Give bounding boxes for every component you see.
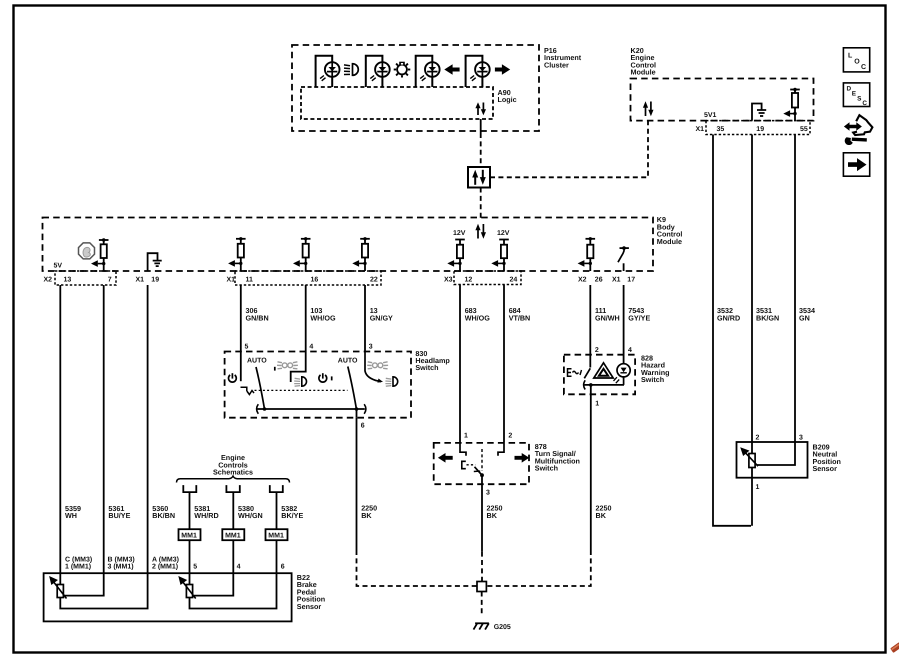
- icon service (double arrow + wrench): [844, 115, 873, 145]
- icon low beam 2: [385, 377, 397, 386]
- svg-text:WH/OG: WH/OG: [465, 313, 491, 322]
- wire serial data to K20: [490, 121, 648, 178]
- icon right turn arrow: [515, 453, 530, 463]
- label 7543 GY/YE: [628, 306, 650, 322]
- svg-text:16: 16: [311, 276, 319, 283]
- svg-text:GY/YE: GY/YE: [628, 313, 650, 322]
- svg-text:WH/RD: WH/RD: [194, 511, 218, 520]
- icon warning triangle: [594, 363, 613, 378]
- label 5361 BU/YE: [108, 504, 130, 520]
- wire 306 GN/BN: [240, 285, 242, 352]
- svg-text:22: 22: [370, 276, 378, 283]
- svg-text:5: 5: [193, 563, 197, 570]
- wire 3532 GN/RD: [713, 135, 751, 526]
- svg-text:D: D: [847, 86, 852, 93]
- pin labels X2 26: [578, 276, 603, 283]
- module A90 Logic box: [301, 87, 493, 119]
- label B22 Brake Pedal Position Sensor: [297, 573, 325, 611]
- svg-text:5V: 5V: [54, 263, 63, 270]
- contact hook pin 1: [460, 443, 466, 456]
- wire 13 GN/GY: [364, 285, 366, 352]
- svg-text:1: 1: [756, 484, 760, 491]
- wire headlamp pin 4 jog: [291, 352, 306, 383]
- resistor in K20 pin 55: [783, 88, 800, 121]
- svg-text:5V1: 5V1: [704, 112, 717, 119]
- svg-text:BK: BK: [487, 511, 498, 520]
- svg-text:GN/BN: GN/BN: [246, 313, 269, 322]
- label 878 Turn Signal Multifunction Switch: [535, 442, 580, 473]
- pin labels X1 19: [136, 276, 160, 283]
- svg-text:GN/GY: GN/GY: [370, 313, 393, 322]
- icon left turn arrow: [438, 453, 453, 463]
- label 2250 BK (right): [596, 504, 612, 520]
- LED 1: [320, 62, 339, 81]
- connector pin box X1 35/19/55: [706, 121, 810, 135]
- splice junction box: [477, 582, 486, 592]
- resistor at BCM pin 7: [91, 238, 109, 271]
- svg-text:24: 24: [510, 276, 518, 283]
- wire 3534 GN: [794, 135, 796, 443]
- connector pin box X3 12/24: [454, 271, 521, 285]
- switch symbol at BCM pin 17: [618, 246, 629, 271]
- svg-text:Cluster: Cluster: [544, 60, 569, 69]
- label 683 WH/OG: [465, 306, 491, 322]
- resistor at BCM pin 22: [352, 237, 370, 271]
- svg-text:X1: X1: [136, 276, 145, 283]
- potentiometer in B209: [742, 442, 796, 478]
- svg-text:GN/RD: GN/RD: [717, 313, 740, 322]
- inline connector MM1 (2): [222, 529, 244, 540]
- label A90 Logic: [498, 88, 517, 104]
- LED indicator 4 (right turn) bracket: [466, 56, 483, 87]
- label 5380 WH/GN: [238, 504, 263, 520]
- svg-text:G205: G205: [494, 624, 511, 631]
- pin labels X3 12 24: [444, 276, 517, 283]
- module K9 Body Control Module box: [43, 218, 654, 272]
- wire headlamp pin 6: [356, 409, 358, 418]
- common bar of headlamp switch: [257, 404, 366, 414]
- resistor at BCM pin 11: [228, 237, 246, 271]
- wire 2250 BK from headlamp pin 6: [357, 418, 478, 586]
- off-page connector 1: [183, 485, 196, 492]
- icon low beam 1: [294, 377, 306, 386]
- switch S878 Turn Signal/Multifunction Switch box: [434, 443, 529, 484]
- LED indicator 3 (left turn) bracket: [416, 56, 433, 87]
- svg-text:3: 3: [486, 489, 490, 496]
- svg-text:Module: Module: [657, 237, 682, 246]
- svg-text:O: O: [854, 58, 860, 65]
- svg-text:6: 6: [361, 423, 365, 430]
- svg-text:35: 35: [717, 126, 725, 133]
- wire hazard pin 1: [590, 385, 592, 394]
- label P16 Instrument Cluster: [544, 46, 582, 69]
- resistor at BCM pin 16: [293, 237, 311, 271]
- label 5381 WH/RD: [194, 504, 218, 520]
- svg-text:E: E: [852, 90, 857, 97]
- svg-text:A (MM3): A (MM3): [152, 555, 179, 563]
- svg-text:19: 19: [151, 276, 159, 283]
- svg-text:1: 1: [464, 433, 468, 440]
- latch symbol E~: [568, 369, 582, 377]
- label 111 GN/WH: [595, 306, 620, 322]
- svg-text:Module: Module: [631, 68, 656, 77]
- label 3534 GN: [799, 306, 815, 322]
- wire headlamp pin 3 curve: [365, 352, 381, 382]
- wire 684 VT/BN: [503, 285, 505, 443]
- label 828 Hazard Warning Switch: [641, 354, 669, 385]
- off-page connector 2: [226, 485, 239, 492]
- icon right arrow: [495, 64, 510, 75]
- pin labels 5 4 3 of headlamp switch: [245, 344, 373, 351]
- svg-text:X3: X3: [444, 276, 453, 283]
- wire 5382 below MM1: [276, 540, 278, 573]
- label 5382 BK/YE: [281, 504, 303, 520]
- label 2250 BK (left): [361, 504, 377, 520]
- svg-text:26: 26: [595, 276, 603, 283]
- svg-text:BK: BK: [361, 511, 372, 520]
- svg-text:WH: WH: [65, 511, 77, 520]
- wire splice to ground: [481, 592, 483, 617]
- svg-text:L: L: [848, 52, 853, 59]
- label Engine Controls Schematics: [213, 453, 253, 477]
- module B209 box: [737, 442, 808, 478]
- wire serial data to BCM: [480, 188, 482, 219]
- icon lamp gear: [394, 62, 411, 78]
- svg-text:2: 2: [595, 347, 599, 354]
- svg-text:6: 6: [281, 563, 285, 570]
- svg-text:55: 55: [800, 126, 808, 133]
- label 2250 BK (center): [487, 504, 503, 520]
- LED indicator 1 (low beam) bracket: [316, 56, 333, 87]
- label 13 GN/GY: [370, 306, 393, 322]
- pin labels X1 11 16 22: [227, 276, 378, 283]
- mechanical link dashes: [467, 464, 476, 466]
- module K20 Engine Control Module box: [631, 79, 814, 121]
- potentiometer 2 in B22: [180, 573, 277, 608]
- wire 111 GN/WH: [589, 285, 591, 368]
- label 830 Headlamp Switch: [415, 349, 450, 372]
- label 5359 WH: [65, 504, 81, 520]
- svg-text:7: 7: [108, 276, 112, 283]
- svg-text:X2: X2: [44, 276, 53, 283]
- wire 5361 BU/YE: [103, 285, 105, 573]
- wire 2250 BK from turn signal pin 3: [481, 484, 483, 581]
- svg-text:Switch: Switch: [535, 464, 558, 473]
- svg-text:VT/BN: VT/BN: [509, 313, 531, 322]
- off-page connector 3: [270, 485, 283, 492]
- svg-text:WH/OG: WH/OG: [310, 313, 336, 322]
- wire 5382 BK/YE: [276, 492, 278, 529]
- icon left arrow: [444, 64, 459, 75]
- svg-text:Sensor: Sensor: [297, 602, 322, 611]
- svg-text:2: 2: [508, 433, 512, 440]
- svg-text:3: 3: [369, 344, 373, 351]
- inline connector MM1 (1): [179, 529, 201, 540]
- LED 4: [470, 62, 489, 81]
- resistor at BCM pin 12: [447, 240, 465, 272]
- icon parking lamps 2: [367, 362, 388, 369]
- hazard switch lever: [584, 368, 590, 378]
- ground symbol at BCM pin 19: [148, 253, 162, 271]
- pin labels X1 17: [612, 276, 635, 283]
- contact hook pin 2: [498, 443, 504, 456]
- svg-text:BK: BK: [596, 511, 607, 520]
- wire 103 WH/OG: [305, 285, 307, 352]
- connector pin box X1 11/16/22: [235, 271, 381, 285]
- wire 5380 below MM1: [232, 540, 234, 573]
- brace to Engine Controls Schematics: [177, 476, 290, 482]
- LED 2: [370, 62, 389, 81]
- svg-text:Sensor: Sensor: [813, 464, 838, 473]
- svg-text:12: 12: [465, 276, 473, 283]
- switch S828 Hazard Warning Switch box: [564, 355, 635, 395]
- inline connector MM1 (3): [266, 529, 288, 540]
- switch lever: [474, 449, 484, 477]
- svg-text:MM1: MM1: [225, 533, 241, 540]
- svg-text:S: S: [857, 95, 862, 102]
- label K9 Body Control Module: [657, 215, 683, 246]
- center contact bracket: [462, 461, 466, 468]
- wire turn signal pin 3: [481, 475, 483, 484]
- svg-text:4: 4: [628, 347, 632, 354]
- svg-text:BU/YE: BU/YE: [108, 511, 130, 520]
- serial data arrows in A90: [475, 102, 486, 115]
- icon DESC box: [843, 83, 869, 107]
- svg-text:Logic: Logic: [498, 95, 517, 104]
- resistor at BCM pin 26: [578, 237, 596, 271]
- svg-text:BK/YE: BK/YE: [281, 511, 303, 520]
- wire 5359 WH: [59, 285, 61, 573]
- icon power symbol 2: [319, 373, 332, 382]
- svg-text:Switch: Switch: [641, 375, 664, 384]
- svg-text:AUTO: AUTO: [247, 358, 267, 365]
- serial data arrows in link box: [472, 170, 486, 185]
- serial data arrows in K20: [643, 101, 654, 116]
- svg-text:5: 5: [245, 344, 249, 351]
- svg-text:AUTO: AUTO: [338, 358, 358, 365]
- label K20 Engine Control Module: [631, 46, 657, 77]
- svg-text:4: 4: [237, 563, 241, 570]
- pin labels C/B/A MM3 MM1 row: [65, 555, 285, 570]
- svg-text:3 (MM1): 3 (MM1): [108, 562, 134, 570]
- svg-text:2: 2: [756, 435, 760, 442]
- svg-text:11: 11: [246, 276, 254, 283]
- switch S830 Headlamp Switch box: [225, 352, 411, 418]
- svg-text:C: C: [861, 64, 866, 71]
- svg-text:GN: GN: [799, 313, 810, 322]
- serial data link box: [468, 167, 490, 188]
- LED 3: [420, 62, 439, 81]
- svg-text:B (MM3): B (MM3): [108, 555, 135, 563]
- svg-text:MM1: MM1: [268, 533, 284, 540]
- off detent symbol: [241, 387, 255, 394]
- svg-text:13: 13: [64, 276, 72, 283]
- resistor at BCM pin 24: [491, 240, 509, 272]
- icon power symbol 1: [228, 373, 236, 382]
- ground symbol in K20 pin 19: [752, 104, 766, 121]
- icon ambient light sensor octagon: [79, 243, 95, 259]
- label 103 WH/OG: [310, 306, 336, 322]
- svg-text:Switch: Switch: [415, 363, 438, 372]
- ground G205: [474, 623, 489, 629]
- wire 5360 BK/BN: [147, 285, 149, 573]
- pin labels X1 35 19 55: [696, 126, 808, 133]
- hazard LED: [614, 364, 631, 385]
- switch lever 2: [348, 367, 357, 409]
- red pencil mark: [890, 642, 899, 653]
- wire 5381 WH/RD: [189, 492, 191, 529]
- svg-text:4: 4: [309, 344, 313, 351]
- svg-text:X1: X1: [696, 126, 705, 133]
- label 3531 BK/GN: [756, 306, 779, 322]
- wire 2250 BK from hazard pin 1: [486, 394, 590, 586]
- pin labels 2 4 of hazard switch: [595, 347, 632, 354]
- svg-text:1: 1: [595, 400, 599, 407]
- wire serial data from A90 down: [480, 119, 482, 133]
- svg-text:C (MM3): C (MM3): [65, 555, 92, 563]
- connector pin box X2 13/7: [55, 271, 116, 285]
- icon parking lamps 1: [274, 367, 276, 371]
- svg-text:2 (MM1): 2 (MM1): [152, 562, 178, 570]
- label 306 GN/BN: [246, 306, 269, 322]
- svg-text:WH/GN: WH/GN: [238, 511, 263, 520]
- hazard common bar: [584, 380, 624, 389]
- serial data arrows in BCM: [475, 224, 486, 239]
- svg-text:17: 17: [627, 276, 635, 283]
- svg-text:12V: 12V: [453, 230, 466, 237]
- pin labels 1 2 of turn signal switch: [464, 433, 512, 440]
- svg-text:GN/WH: GN/WH: [595, 313, 620, 322]
- label 3532 GN/RD: [717, 306, 740, 322]
- potentiometer 1 in B22: [50, 573, 147, 608]
- mechanical link dotted: [255, 389, 348, 391]
- svg-text:BK/GN: BK/GN: [756, 313, 779, 322]
- svg-text:C: C: [862, 100, 867, 107]
- svg-text:12V: 12V: [497, 230, 510, 237]
- wire headlamp pin 5 stub: [240, 352, 242, 382]
- svg-text:19: 19: [756, 126, 764, 133]
- svg-text:MM1: MM1: [181, 533, 197, 540]
- label 684 VT/BN: [509, 306, 531, 322]
- LED indicator 2 (lights-on) bracket: [366, 56, 383, 87]
- label 5360 BK/BN: [152, 504, 175, 520]
- wire 5380 WH/GN: [232, 492, 234, 529]
- sensor B22 Brake Pedal Position Sensor box: [44, 573, 292, 621]
- wire 7543 GY/YE: [623, 285, 625, 364]
- wire 5381 below MM1: [189, 540, 191, 573]
- icon LOC box: [843, 48, 869, 72]
- svg-text:3: 3: [799, 435, 803, 442]
- label B209 Neutral Position Sensor: [813, 443, 841, 474]
- icon low beam: [344, 64, 358, 76]
- svg-text:X1: X1: [612, 276, 621, 283]
- wire 3531 BK/GN: [751, 135, 753, 443]
- pin labels 2 3 of B209: [756, 435, 804, 442]
- wire 683 WH/OG: [459, 285, 461, 443]
- switch lever 1: [256, 367, 264, 409]
- pin labels X2 13 7: [44, 276, 112, 283]
- svg-text:X1: X1: [227, 276, 236, 283]
- svg-text:X2: X2: [578, 276, 587, 283]
- icon forward arrow box: [843, 153, 869, 176]
- wire B209 pin1 down: [751, 478, 753, 526]
- svg-text:BK/BN: BK/BN: [152, 511, 175, 520]
- module P16 Instrument Cluster box: [292, 45, 539, 131]
- svg-text:1 (MM1): 1 (MM1): [65, 562, 91, 570]
